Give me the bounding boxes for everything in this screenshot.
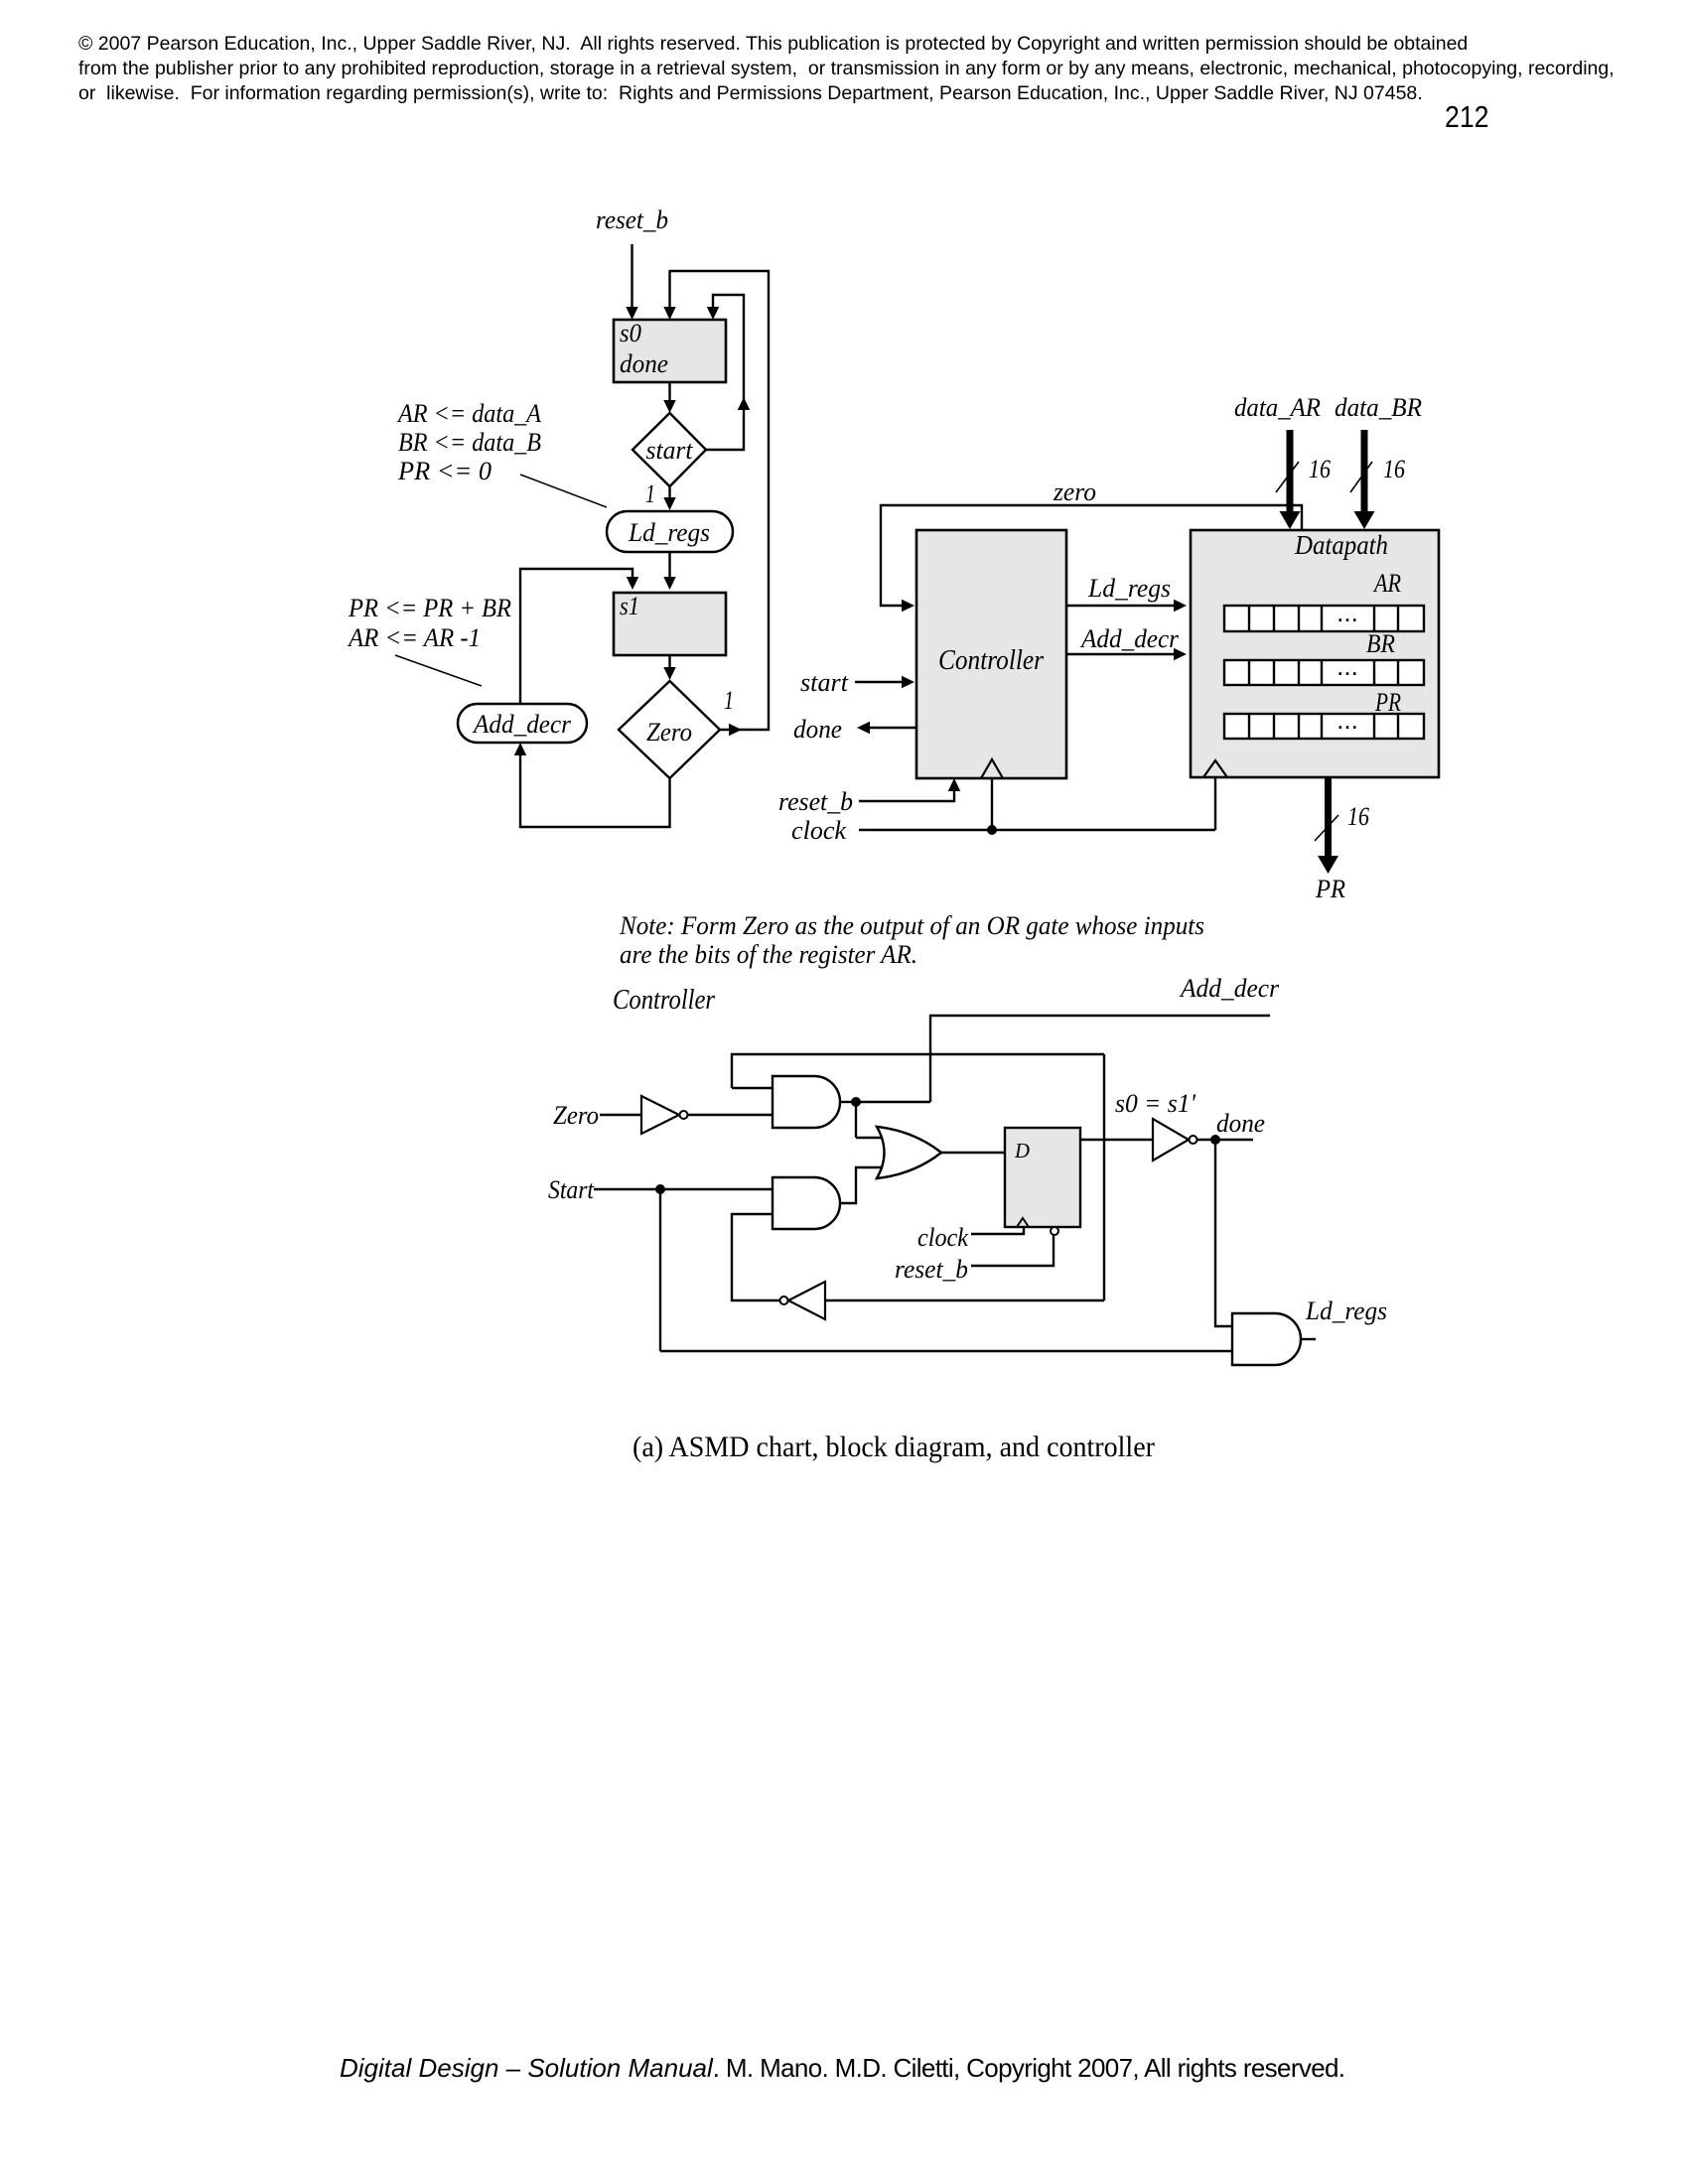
wire Start down to Ld_regs AND — [659, 1189, 661, 1351]
register PR cells — [1224, 714, 1424, 739]
svg-text:Controller: Controller — [938, 644, 1045, 676]
conditional output oval Ld_regs — [607, 511, 733, 552]
svg-text:PR <= PR + BR: PR <= PR + BR — [348, 594, 511, 622]
wire Ld_regs AND output — [1301, 1338, 1316, 1340]
annotation pointer line to Ld_regs — [520, 475, 607, 507]
block Controller — [916, 530, 1066, 778]
wire s1 feedback vertical — [1103, 1054, 1105, 1300]
junction dot at done node — [1210, 1135, 1220, 1145]
svg-text:1: 1 — [724, 686, 734, 715]
svg-text:BR: BR — [1366, 629, 1395, 658]
svg-text:AR <= AR -1: AR <= AR -1 — [347, 623, 481, 652]
svg-text:s0 = s1': s0 = s1' — [1115, 1089, 1196, 1118]
flip-flop clock triangle — [1017, 1218, 1029, 1227]
wire into AND1 upper input — [732, 1087, 774, 1089]
wire s0 to start decision — [668, 382, 670, 401]
svg-text:Ld_regs: Ld_regs — [1305, 1297, 1387, 1325]
register AR cells — [1224, 606, 1424, 631]
svg-text:data_BR: data_BR — [1335, 393, 1422, 422]
bus width slash data_BR — [1350, 462, 1372, 492]
conditional output oval Add_decr — [458, 704, 587, 743]
bus PR output from Datapath — [1325, 778, 1332, 858]
wire start into Controller — [855, 681, 902, 683]
wire outer loop from Zero exit back to s0 top — [670, 271, 770, 730]
junction arrowhead on inner loop wire pointing up — [738, 397, 750, 410]
header copyright text — [78, 32, 1615, 107]
OR gate O1 — [877, 1127, 941, 1178]
wire reset_b to flip-flop — [971, 1235, 1054, 1266]
svg-text:PR: PR — [1315, 875, 1345, 903]
inverter U4 making s0 — [1153, 1119, 1189, 1160]
wire clock to Controller and Datapath — [859, 829, 1215, 831]
svg-text:Add_decr: Add_decr — [1179, 974, 1280, 1003]
wire AND1 output node — [840, 1101, 856, 1103]
svg-text:16: 16 — [1347, 802, 1369, 831]
svg-text:16: 16 — [1309, 455, 1331, 483]
svg-text:(a) ASMD chart, block diagram,: (a) ASMD chart, block diagram, and contr… — [633, 1431, 1155, 1463]
svg-text:start: start — [800, 668, 849, 697]
wire s1 to Zero decision — [668, 655, 670, 668]
svg-text:...: ... — [1336, 705, 1358, 735]
wire Ld_regs to s1 — [668, 552, 670, 578]
wire reset_b into s0 with arrowhead — [631, 244, 633, 308]
svg-text:Datapath: Datapath — [1294, 530, 1388, 560]
wire done out of Controller — [870, 727, 916, 729]
wire done down to Ld_regs AND — [1215, 1140, 1232, 1326]
svg-text:done: done — [1216, 1109, 1265, 1138]
wire flip-flop Q output — [1080, 1139, 1153, 1141]
wire Ld_regs Controller to Datapath — [1066, 605, 1174, 607]
svg-text:AR <= data_A: AR <= data_A — [396, 399, 541, 428]
junction dot on Start wire — [655, 1184, 665, 1194]
bus data_BR into Datapath — [1361, 430, 1368, 513]
svg-text:clock: clock — [917, 1223, 968, 1252]
wire inverter U4 to done node — [1197, 1139, 1254, 1141]
wire node to Add_decr tap — [856, 1101, 930, 1103]
wire zero from Datapath to Controller — [881, 505, 1302, 606]
register BR cells — [1224, 660, 1424, 685]
footer credit line — [340, 2053, 1344, 2084]
wire OR output to flip-flop D input — [941, 1152, 1005, 1154]
svg-text:zero: zero — [1053, 478, 1096, 506]
svg-text:Add_decr: Add_decr — [1079, 624, 1180, 653]
NOT gate U3 left-pointing — [788, 1282, 825, 1319]
svg-text:BR <= data_B: BR <= data_B — [398, 428, 541, 457]
wire start to Ld_regs — [668, 486, 670, 498]
wire Zero bottom exit looping into Add_decr — [520, 754, 670, 827]
wire Add_decr output — [930, 1016, 1270, 1102]
AND gate A1 — [773, 1076, 840, 1128]
svg-text:1: 1 — [645, 479, 655, 508]
svg-text:...: ... — [1336, 651, 1358, 681]
svg-text:Zero: Zero — [646, 718, 692, 747]
wire AND2 output to OR bottom input — [840, 1167, 884, 1203]
wire Start to AND2 — [594, 1188, 774, 1190]
svg-text:s0: s0 — [620, 319, 641, 347]
svg-text:Zero: Zero — [553, 1101, 599, 1130]
svg-text:Ld_regs: Ld_regs — [1087, 574, 1171, 603]
svg-text:PR: PR — [1374, 688, 1401, 717]
svg-text:s1: s1 — [620, 592, 639, 620]
bus data_AR into Datapath — [1287, 430, 1294, 513]
svg-text:16: 16 — [1383, 455, 1405, 483]
svg-text:done: done — [620, 349, 668, 378]
svg-text:reset_b: reset_b — [596, 205, 668, 234]
wire Zero to inverter — [600, 1114, 641, 1116]
wire inner loop from start exit back to s0 top — [706, 295, 744, 450]
clock edge triangle on Datapath — [1203, 760, 1227, 777]
AND gate A3 making Ld_regs — [1232, 1313, 1301, 1365]
AND gate A2 — [773, 1177, 840, 1229]
clock edge triangle on Controller — [981, 759, 1003, 778]
wire clock to flip-flop — [971, 1227, 1024, 1234]
annotation pointer line to Add_decr — [395, 655, 482, 686]
svg-text:Add_decr: Add_decr — [472, 710, 572, 739]
block Datapath — [1191, 530, 1439, 777]
junction arrowhead on Zero exit wire pointing right — [729, 724, 742, 736]
svg-text:reset_b: reset_b — [895, 1255, 968, 1284]
svg-text:clock: clock — [791, 816, 846, 845]
junction on clock wire — [987, 825, 997, 835]
svg-text:are the bits of the register A: are the bits of the register AR. — [620, 940, 917, 969]
svg-text:Controller: Controller — [613, 984, 716, 1016]
svg-text:done: done — [793, 715, 842, 744]
svg-text:...: ... — [1336, 598, 1358, 627]
svg-text:Ld_regs: Ld_regs — [628, 518, 710, 547]
wire node to OR top input — [855, 1102, 857, 1138]
wire inverter U1 to AND1 — [688, 1114, 775, 1116]
flip-flop reset bubble — [1051, 1227, 1058, 1235]
decision diamond start — [633, 413, 706, 486]
bus width slash PR — [1315, 815, 1338, 841]
wire s1 to NOT gate input — [825, 1299, 1104, 1301]
svg-text:Note: Form Zero as the output: Note: Form Zero as the output of an OR g… — [619, 911, 1204, 940]
state box s0 — [614, 320, 726, 382]
wire re-entry loop from Add_decr top into s1 — [520, 569, 633, 704]
svg-text:data_AR: data_AR — [1234, 393, 1321, 422]
state box s1 — [614, 593, 726, 655]
junction dot at AND1 output — [851, 1097, 861, 1107]
inverter U1 on Zero — [641, 1096, 679, 1134]
svg-text:AR: AR — [1372, 569, 1401, 598]
svg-text:start: start — [646, 436, 694, 465]
bus width slash data_AR — [1276, 462, 1299, 492]
decision diamond Zero — [619, 681, 720, 778]
wire reset_b into Controller bottom — [859, 791, 954, 801]
svg-text:reset_b: reset_b — [778, 787, 853, 816]
svg-text:Start: Start — [548, 1175, 595, 1204]
svg-text:PR <= 0: PR <= 0 — [397, 457, 492, 485]
svg-text:D: D — [1014, 1139, 1030, 1162]
D flip-flop U2 — [1005, 1128, 1080, 1227]
wire NOT output loop to AND2 lower input — [732, 1214, 779, 1300]
page number — [1445, 99, 1488, 135]
wire Add_decr Controller to Datapath — [1066, 653, 1174, 655]
wire s1 feedback top loop — [732, 1054, 1104, 1088]
